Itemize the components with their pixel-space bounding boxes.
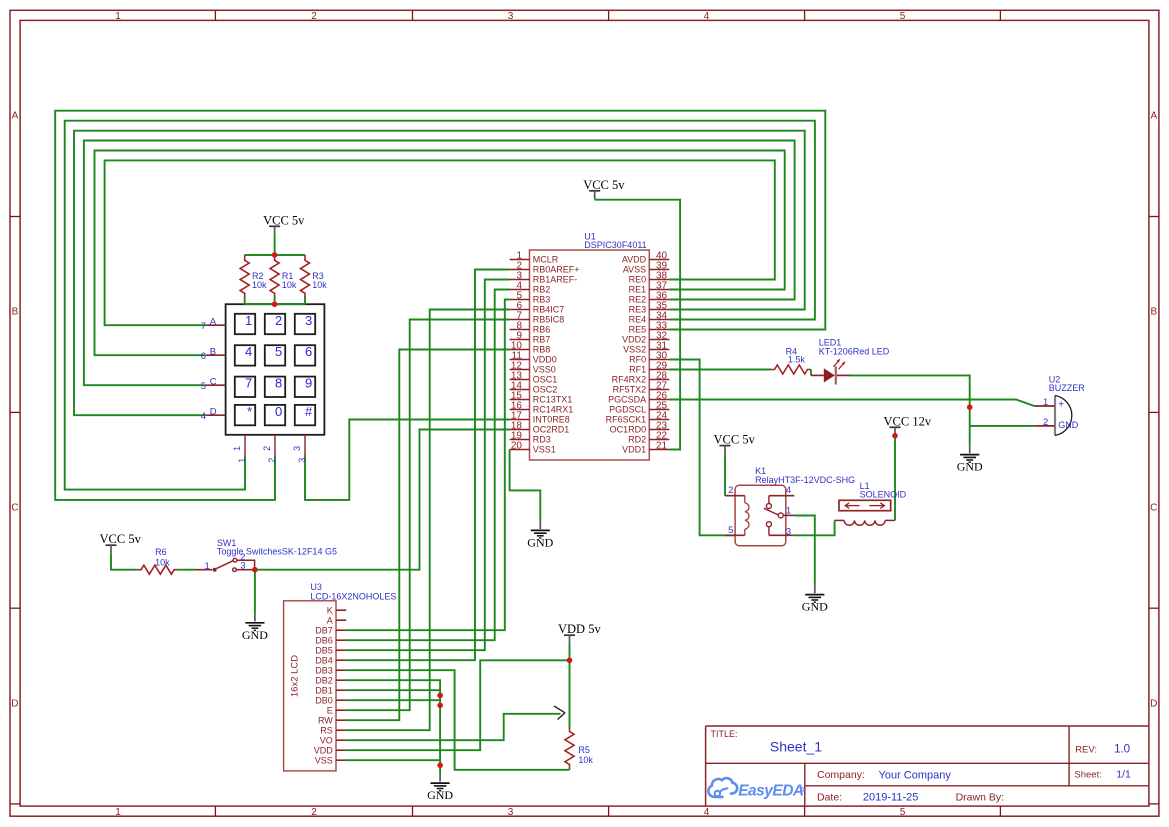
svg-text:VCC 5v: VCC 5v [263, 213, 305, 227]
svg-text:K: K [327, 606, 333, 616]
svg-text:VCC 12v: VCC 12v [884, 414, 932, 428]
svg-text:20: 20 [511, 441, 523, 452]
svg-text:RF1: RF1 [629, 365, 646, 375]
svg-text:3: 3 [292, 446, 302, 451]
svg-text:RF4RX2: RF4RX2 [612, 375, 647, 385]
svg-text:10k: 10k [282, 280, 297, 290]
svg-text:2: 2 [275, 313, 282, 328]
svg-text:#: # [305, 404, 313, 419]
svg-text:D: D [210, 407, 217, 418]
svg-text:R6: R6 [155, 547, 167, 557]
svg-text:3: 3 [508, 807, 514, 818]
svg-text:RB3: RB3 [533, 295, 551, 305]
svg-text:6: 6 [201, 351, 206, 362]
svg-text:RE4: RE4 [629, 315, 647, 325]
svg-text:C: C [210, 377, 217, 388]
svg-text:RB4IC7: RB4IC7 [533, 305, 565, 315]
svg-text:RE3: RE3 [629, 305, 647, 315]
svg-text:1: 1 [1043, 397, 1048, 408]
svg-text:VO: VO [320, 736, 333, 746]
svg-text:A: A [210, 317, 217, 328]
svg-text:1: 1 [232, 446, 242, 451]
svg-text:21: 21 [656, 441, 668, 452]
svg-text:1.5k: 1.5k [788, 354, 806, 364]
svg-text:Date:: Date: [817, 792, 842, 804]
svg-text:VCC 5v: VCC 5v [100, 532, 142, 546]
svg-text:3: 3 [786, 527, 791, 538]
svg-text:DB4: DB4 [315, 656, 333, 666]
svg-text:4: 4 [704, 807, 710, 818]
svg-text:VDD0: VDD0 [533, 355, 557, 365]
svg-text:U3: U3 [310, 582, 322, 592]
svg-text:OSC2: OSC2 [533, 385, 558, 395]
svg-text:RE0: RE0 [629, 275, 647, 285]
svg-text:VCC 5v: VCC 5v [583, 178, 625, 192]
svg-text:RD2: RD2 [628, 435, 646, 445]
svg-text:B: B [1150, 307, 1157, 318]
svg-text:+: + [1058, 400, 1064, 411]
svg-text:5: 5 [275, 344, 282, 359]
svg-text:3: 3 [240, 560, 245, 571]
svg-text:16x2 LCD: 16x2 LCD [289, 655, 300, 697]
svg-text:1/1: 1/1 [1116, 769, 1131, 781]
svg-text:VDD2: VDD2 [622, 335, 646, 345]
svg-text:5: 5 [201, 381, 206, 392]
svg-text:VCC 5v: VCC 5v [714, 433, 756, 447]
svg-text:VSS1: VSS1 [533, 445, 556, 455]
svg-text:RB2: RB2 [533, 285, 551, 295]
svg-text:2: 2 [1043, 417, 1048, 428]
svg-text:RB1AREF-: RB1AREF- [533, 275, 578, 285]
svg-text:C: C [11, 503, 18, 514]
svg-text:Sheet_1: Sheet_1 [770, 739, 822, 755]
svg-text:PGCSDA: PGCSDA [608, 395, 646, 405]
svg-text:E: E [327, 706, 333, 716]
svg-text:GND: GND [242, 628, 268, 642]
svg-text:RE1: RE1 [629, 285, 647, 295]
svg-text:RB7: RB7 [533, 335, 551, 345]
svg-text:6: 6 [305, 344, 312, 359]
svg-text:RW: RW [318, 716, 333, 726]
svg-text:C: C [1150, 503, 1157, 514]
svg-text:RF0: RF0 [629, 355, 646, 365]
svg-text:5: 5 [900, 807, 906, 818]
svg-text:5: 5 [900, 11, 906, 22]
svg-text:RE5: RE5 [629, 325, 647, 335]
svg-text:AVDD: AVDD [622, 255, 647, 265]
svg-text:10k: 10k [155, 558, 170, 568]
svg-text:RC13TX1: RC13TX1 [533, 395, 573, 405]
svg-text:B: B [12, 307, 19, 318]
svg-text:GND: GND [527, 535, 553, 549]
svg-text:B: B [210, 347, 216, 358]
svg-text:DSPIC30F4011: DSPIC30F4011 [584, 240, 646, 250]
svg-text:KT-1206Red LED: KT-1206Red LED [819, 346, 890, 356]
svg-text:BUZZER: BUZZER [1049, 383, 1086, 393]
svg-text:1: 1 [786, 505, 791, 516]
svg-text:LCD-16X2NOHOLES: LCD-16X2NOHOLES [310, 592, 396, 602]
svg-text:OC1RD0: OC1RD0 [610, 425, 647, 435]
svg-text:A: A [12, 111, 19, 122]
svg-text:R5: R5 [578, 745, 590, 755]
svg-text:3: 3 [305, 313, 312, 328]
svg-text:0: 0 [275, 404, 282, 419]
svg-text:Company:: Company: [817, 769, 865, 781]
svg-text:GND: GND [802, 600, 828, 614]
svg-text:RB0AREF+: RB0AREF+ [533, 265, 580, 275]
svg-text:1: 1 [115, 807, 121, 818]
svg-text:GND: GND [1058, 420, 1079, 430]
svg-text:DB7: DB7 [315, 626, 333, 636]
svg-text:REV:: REV: [1075, 745, 1097, 756]
svg-text:1: 1 [115, 11, 121, 22]
svg-text:Toggle SwitchesSK-12F14 G5: Toggle SwitchesSK-12F14 G5 [217, 547, 337, 557]
svg-text:VSS2: VSS2 [623, 345, 646, 355]
svg-text:4: 4 [704, 11, 710, 22]
svg-text:DB2: DB2 [315, 676, 333, 686]
svg-text:DB0: DB0 [315, 696, 333, 706]
svg-text:8: 8 [275, 376, 282, 391]
svg-text:1: 1 [205, 561, 210, 572]
svg-text:7: 7 [245, 376, 252, 391]
svg-text:OSC1: OSC1 [533, 375, 558, 385]
svg-text:VDD: VDD [314, 746, 334, 756]
svg-text:RF5TX2: RF5TX2 [613, 385, 647, 395]
svg-text:Your Company: Your Company [879, 770, 952, 782]
svg-text:9: 9 [305, 376, 312, 391]
svg-text:INT0RE8: INT0RE8 [533, 415, 570, 425]
svg-text:Drawn By:: Drawn By: [956, 792, 1004, 804]
svg-text:VDD 5v: VDD 5v [558, 622, 601, 636]
svg-text:RC14RX1: RC14RX1 [533, 405, 574, 415]
svg-text:VDD1: VDD1 [622, 445, 646, 455]
svg-text:RB6: RB6 [533, 325, 551, 335]
svg-text:DB1: DB1 [315, 686, 333, 696]
svg-text:2: 2 [262, 446, 272, 451]
svg-text:2: 2 [311, 807, 317, 818]
svg-text:2019-11-25: 2019-11-25 [863, 792, 918, 804]
svg-text:DB3: DB3 [315, 666, 333, 676]
svg-text:RF6SCK1: RF6SCK1 [606, 415, 647, 425]
svg-text:10k: 10k [312, 280, 327, 290]
svg-text:7: 7 [201, 321, 206, 332]
svg-text:4: 4 [786, 485, 791, 496]
svg-text:RD3: RD3 [533, 435, 551, 445]
svg-text:RB5IC8: RB5IC8 [533, 315, 565, 325]
svg-text:RB8: RB8 [533, 345, 551, 355]
svg-text:D: D [11, 699, 18, 710]
svg-text:DB5: DB5 [315, 646, 333, 656]
svg-text:2: 2 [267, 458, 277, 463]
svg-text:1: 1 [237, 458, 247, 463]
svg-text:2: 2 [311, 11, 317, 22]
svg-text:VSS0: VSS0 [533, 365, 556, 375]
svg-text:3: 3 [508, 11, 514, 22]
svg-text:TITLE:: TITLE: [711, 729, 738, 739]
svg-text:*: * [247, 404, 252, 419]
svg-text:DB6: DB6 [315, 636, 333, 646]
svg-text:10k: 10k [252, 280, 267, 290]
svg-text:Sheet:: Sheet: [1074, 769, 1101, 780]
svg-text:RelayHT3F-12VDC-SHG: RelayHT3F-12VDC-SHG [755, 475, 855, 485]
svg-text:EasyEDA: EasyEDA [738, 783, 804, 800]
svg-text:2: 2 [728, 485, 733, 496]
svg-text:4: 4 [201, 411, 206, 422]
svg-text:5: 5 [728, 525, 733, 536]
svg-text:3: 3 [297, 458, 307, 463]
svg-text:PGDSCL: PGDSCL [609, 405, 646, 415]
svg-text:VSS: VSS [315, 756, 333, 766]
svg-text:1: 1 [245, 313, 252, 328]
svg-text:OC2RD1: OC2RD1 [533, 425, 570, 435]
svg-text:RS: RS [320, 726, 333, 736]
svg-text:4: 4 [245, 344, 252, 359]
svg-text:10k: 10k [578, 755, 593, 765]
svg-text:A: A [1150, 111, 1157, 122]
svg-text:D: D [1150, 699, 1157, 710]
svg-text:GND: GND [957, 460, 983, 474]
svg-text:AVSS: AVSS [623, 265, 646, 275]
svg-text:MCLR: MCLR [533, 255, 559, 265]
svg-text:1.0: 1.0 [1114, 744, 1130, 756]
svg-text:SOLENOID: SOLENOID [860, 490, 907, 500]
svg-text:RE2: RE2 [629, 295, 647, 305]
svg-text:A: A [327, 616, 333, 626]
svg-text:GND: GND [427, 788, 453, 802]
